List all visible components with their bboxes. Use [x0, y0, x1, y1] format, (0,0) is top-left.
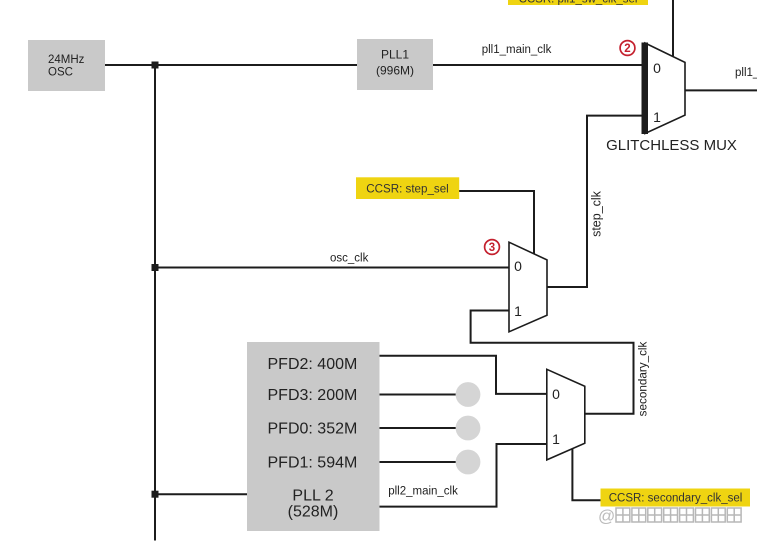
svg-text:OSC: OSC: [48, 67, 73, 79]
svg-text:osc_clk: osc_clk: [330, 253, 369, 265]
svg-text:secondary_clk: secondary_clk: [637, 341, 650, 416]
svg-text:24MHz: 24MHz: [48, 54, 85, 66]
svg-text:2: 2: [624, 43, 630, 55]
svg-text:pll2_main_clk: pll2_main_clk: [388, 486, 458, 498]
svg-text:1: 1: [514, 303, 522, 319]
svg-text:3: 3: [489, 242, 495, 254]
svg-text:PLL 2: PLL 2: [292, 488, 333, 505]
svg-text:1: 1: [653, 109, 661, 125]
svg-text:0: 0: [653, 60, 661, 76]
svg-text:1: 1: [552, 431, 560, 447]
svg-text:pll1_main_clk: pll1_main_clk: [482, 44, 552, 56]
svg-text:@: @: [598, 507, 615, 526]
svg-text:pll1_: pll1_: [735, 67, 757, 79]
svg-text:PFD1: 594M: PFD1: 594M: [268, 454, 358, 471]
svg-text:step_clk: step_clk: [590, 190, 604, 237]
svg-text:GLITCHLESS MUX: GLITCHLESS MUX: [606, 137, 737, 154]
svg-text:(528M): (528M): [288, 504, 339, 521]
svg-text:0: 0: [552, 386, 560, 402]
svg-text:PFD3: 200M: PFD3: 200M: [268, 387, 358, 404]
svg-text:CCSR: secondary_clk_sel: CCSR: secondary_clk_sel: [609, 493, 743, 505]
svg-text:PFD2: 400M: PFD2: 400M: [268, 356, 358, 373]
svg-text:PFD0: 352M: PFD0: 352M: [268, 421, 358, 438]
svg-text:CCSR: step_sel: CCSR: step_sel: [366, 182, 448, 195]
svg-text:(996M): (996M): [376, 63, 414, 77]
svg-text:CCSR: pll1_sw_clk_sel: CCSR: pll1_sw_clk_sel: [519, 0, 638, 6]
svg-text:0: 0: [514, 258, 522, 274]
svg-text:PLL1: PLL1: [381, 47, 409, 61]
